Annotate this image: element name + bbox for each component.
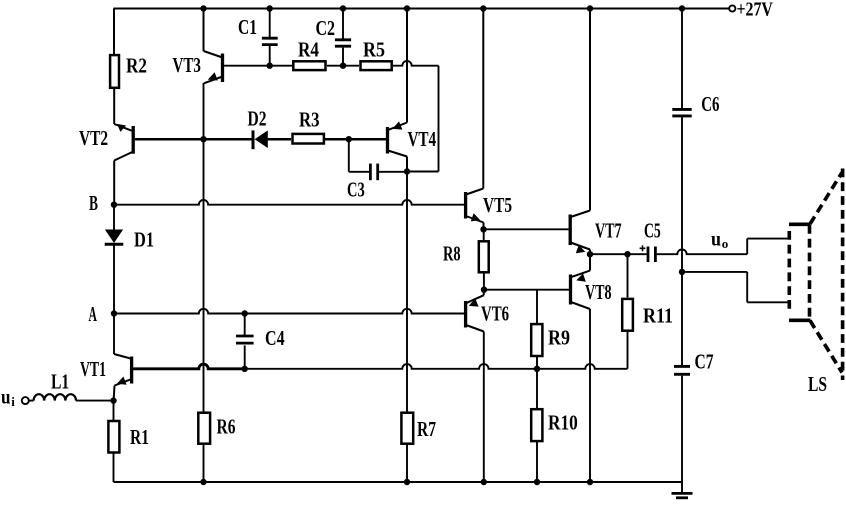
svg-text:R11: R11	[643, 303, 673, 327]
node junction C1-base	[267, 62, 273, 68]
node output junction VT7 emitter	[587, 251, 593, 257]
label uo	[711, 228, 728, 251]
svg-text:u: u	[711, 228, 721, 250]
svg-text:VT7: VT7	[595, 218, 622, 242]
svg-text:+27V: +27V	[737, 0, 774, 20]
node top-rail junction x407	[404, 5, 410, 11]
node junction speaker return	[679, 269, 685, 275]
wire VT3 emitter vertical	[203, 83, 205, 412]
wire VT2 base to D2	[135, 138, 252, 141]
svg-text:R1: R1	[130, 425, 149, 449]
svg-text:R5: R5	[363, 37, 385, 61]
svg-text:C7: C7	[695, 349, 714, 373]
svg-text:C5: C5	[644, 218, 661, 242]
transistor VT8	[571, 254, 612, 482]
capacitor C6	[672, 92, 719, 116]
wire R8 bottom to VT8 base	[484, 289, 569, 291]
resistor R6	[198, 413, 235, 482]
wire +27V top rail	[114, 9, 730, 55]
wire R5 output with hop over x407	[393, 61, 439, 172]
node bottom junction R6	[200, 479, 206, 485]
svg-text:i: i	[11, 394, 15, 409]
svg-text:VT5: VT5	[483, 193, 512, 217]
wire R3 to VT4 base	[325, 138, 386, 141]
inductor L1	[29, 369, 76, 400]
wire VT4 collector vertical	[406, 172, 408, 413]
node VT5 emitter junction	[480, 226, 486, 232]
wire VT1 base segment heavy	[133, 364, 245, 369]
wire C5 to speaker top with hop	[657, 239, 789, 255]
node top-rail junction C6	[679, 5, 685, 11]
svg-text:D2: D2	[248, 106, 267, 130]
svg-text:R3: R3	[299, 107, 320, 131]
svg-text:R10: R10	[548, 410, 578, 434]
ground	[672, 493, 693, 497]
diode D1	[105, 205, 154, 314]
wire A row to VT6 base	[114, 309, 464, 314]
svg-text:u: u	[1, 387, 11, 409]
svg-text:VT8: VT8	[585, 280, 612, 304]
resistor R11	[622, 254, 673, 369]
wire supply decoupling vertical	[681, 9, 683, 109]
speaker LS	[789, 169, 843, 396]
terminal ui input	[1, 387, 29, 410]
resistor R4	[293, 37, 325, 70]
node A	[89, 302, 118, 326]
svg-text:C6: C6	[701, 92, 719, 116]
wire B row to VT5 base	[114, 200, 464, 205]
node top-rail junction VT7	[587, 5, 593, 11]
wire VT5 emitter to VT7 base	[484, 228, 569, 230]
transistor VT2	[79, 124, 133, 205]
transistor VT1	[80, 314, 132, 401]
transistor VT6	[466, 290, 510, 482]
svg-text:VT2: VT2	[79, 126, 108, 150]
transistor VT4	[388, 9, 437, 172]
capacitor C3	[347, 139, 407, 201]
transistor VT3	[173, 9, 223, 84]
svg-text:D1: D1	[134, 227, 154, 251]
svg-text:B: B	[89, 191, 98, 215]
wire VT3 base to R4	[224, 65, 293, 67]
svg-text:C2: C2	[316, 16, 336, 40]
svg-text:VT6: VT6	[481, 301, 509, 325]
svg-text:R2: R2	[126, 53, 147, 77]
node R8 bottom junction	[481, 287, 487, 293]
capacitor C1	[238, 9, 278, 66]
wire ground bottom rail	[114, 481, 683, 483]
node top-rail junction VT5	[480, 5, 486, 11]
svg-text:VT3: VT3	[173, 53, 202, 77]
wire R4 to R5	[327, 65, 359, 67]
resistor R9	[531, 324, 570, 369]
node bottom junction R10	[534, 479, 540, 485]
svg-text:R7: R7	[417, 417, 436, 441]
svg-text:C4: C4	[265, 326, 285, 350]
terminal +27V	[729, 0, 773, 20]
resistor R3	[293, 107, 324, 143]
svg-text:A: A	[89, 302, 98, 326]
resistor R5	[361, 37, 392, 70]
wire C7 to ground	[681, 376, 683, 493]
svg-text:C1: C1	[238, 15, 257, 39]
capacitor C7	[674, 349, 714, 374]
svg-text:C3: C3	[347, 177, 365, 201]
diode D2	[248, 106, 268, 149]
resistor R10	[531, 369, 578, 482]
svg-text:R9: R9	[548, 325, 570, 349]
capacitor C5	[640, 218, 661, 262]
node junction C2	[340, 62, 346, 68]
svg-text:LS: LS	[808, 372, 827, 396]
wire C6 to C7	[681, 117, 683, 365]
capacitor C2	[316, 9, 352, 66]
node bottom junction VT6	[481, 479, 487, 485]
svg-text:R6: R6	[217, 414, 236, 438]
node B	[89, 191, 117, 215]
resistor R2	[110, 53, 147, 124]
svg-text:R8: R8	[443, 241, 461, 265]
wire D2 to R3	[268, 138, 291, 141]
svg-text:VT4: VT4	[408, 127, 437, 151]
node junction R9 bottom	[534, 366, 540, 372]
transistor VT5	[466, 9, 512, 230]
node junction C4 top	[242, 310, 248, 316]
node junction R11 top	[624, 251, 630, 257]
svg-text:o: o	[722, 236, 729, 251]
node junction VT4 collector	[404, 168, 410, 174]
node top-rail junction x203	[200, 5, 206, 11]
resistor R7	[401, 413, 436, 482]
node bottom junction R7	[404, 479, 410, 485]
wire output row	[590, 253, 647, 255]
node top-rail junction C1	[267, 5, 273, 11]
node bottom junction VT8	[587, 479, 593, 485]
resistor R1	[108, 401, 149, 482]
node junction VT2-base x203	[200, 136, 206, 142]
wire feedback row to R11	[245, 364, 628, 369]
svg-text:VT1: VT1	[80, 357, 106, 381]
capacitor C4	[236, 314, 285, 369]
wire speaker bottom branch	[682, 272, 789, 302]
node top-rail junction C2	[340, 5, 346, 11]
svg-text:R4: R4	[298, 37, 319, 61]
node VT1 emitter junction	[110, 397, 116, 403]
wire L1 to VT1 emitter	[76, 400, 114, 402]
resistor R8	[443, 229, 489, 289]
svg-text:L1: L1	[51, 369, 69, 393]
node junction C4 bottom	[242, 366, 248, 372]
transistor VT7	[570, 9, 622, 255]
wire branch to R9	[536, 290, 538, 323]
node junction R3-C3	[346, 136, 352, 142]
